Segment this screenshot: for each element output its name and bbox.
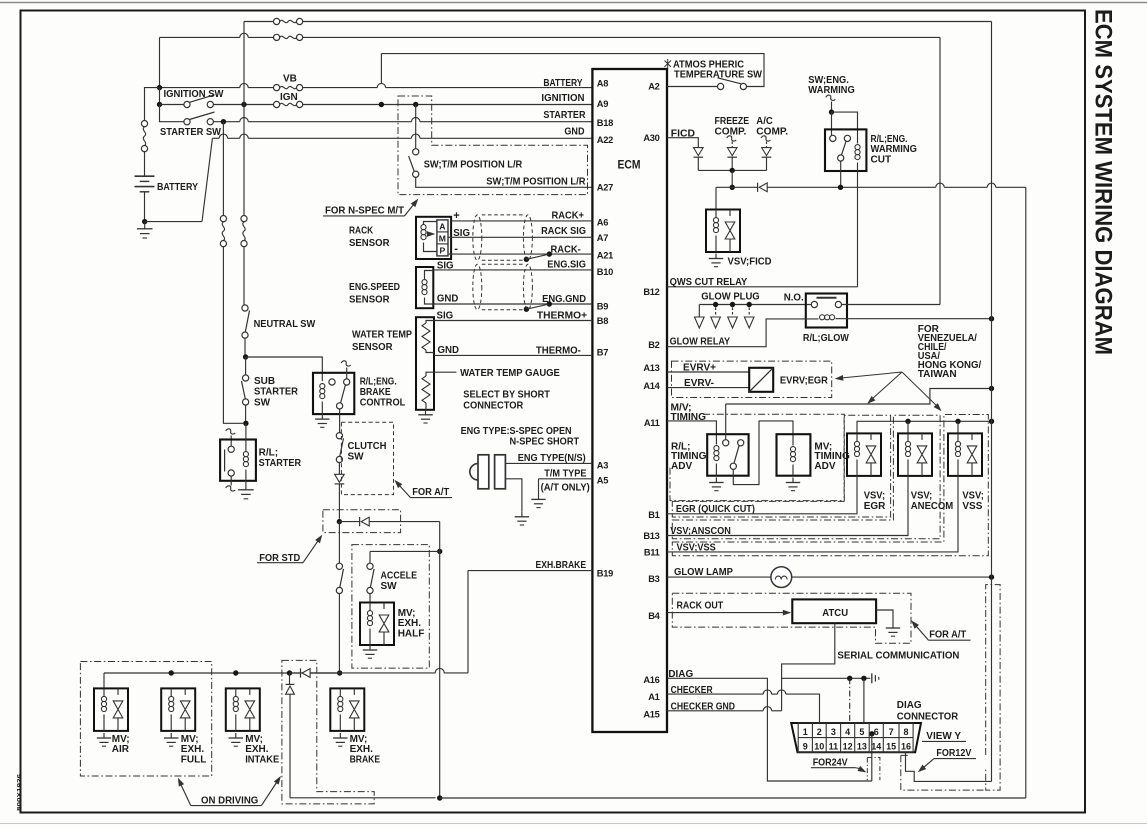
wire RACK+ to A6 bbox=[451, 220, 592, 222]
node starter x223 bbox=[221, 119, 226, 124]
svg-text:ATCU: ATCU bbox=[822, 607, 848, 619]
fuse F1 bbox=[274, 18, 280, 24]
svg-text:GND: GND bbox=[437, 294, 459, 305]
wire diag pin5 feed bbox=[863, 678, 865, 723]
wire ENG.GND to B9 bbox=[433, 303, 592, 305]
svg-text:B11: B11 bbox=[644, 547, 660, 557]
wire glow relay coil to battery column bbox=[836, 318, 992, 320]
solenoid valve VSV;FICD bbox=[706, 210, 740, 253]
ground (T/M type) bbox=[538, 494, 540, 499]
node VB-left bbox=[157, 85, 162, 90]
fusible link FL2 bbox=[220, 216, 226, 222]
wire std column down to bottom rail bbox=[439, 551, 441, 798]
dash-dot box FOR STD bbox=[323, 510, 401, 533]
svg-text:A7: A7 bbox=[597, 233, 608, 243]
svg-text:A16: A16 bbox=[643, 675, 659, 685]
svg-text:ENG.SPEED: ENG.SPEED bbox=[349, 282, 400, 293]
svg-text:A9: A9 bbox=[597, 99, 608, 109]
node glow coil battery bbox=[989, 316, 994, 321]
svg-text:A22: A22 bbox=[597, 135, 613, 145]
svg-text:SW;T/M POSITION L/R: SW;T/M POSITION L/R bbox=[424, 160, 523, 171]
diode D2 (std) bbox=[339, 521, 359, 523]
valve EVRV;EGR bbox=[749, 368, 773, 392]
node eng gnd shield tie bbox=[547, 301, 552, 306]
svg-text:B13: B13 bbox=[643, 531, 659, 541]
svg-text:(A/T ONLY): (A/T ONLY) bbox=[541, 483, 590, 494]
svg-text:A14: A14 bbox=[643, 381, 660, 391]
wire EXH.BRAKE B19 bbox=[468, 570, 592, 572]
asterisk mark bbox=[665, 59, 671, 68]
svg-text:14: 14 bbox=[871, 742, 881, 752]
svg-text:BRAKE: BRAKE bbox=[350, 755, 381, 766]
svg-text:P: P bbox=[440, 245, 446, 255]
dash-dot box ON DRIVING left group bbox=[80, 662, 211, 777]
dash-dot box EVRV group bbox=[672, 361, 832, 397]
ground (short connector) bbox=[521, 512, 523, 517]
wire VB row (ECM A8 BATTERY) bbox=[160, 87, 240, 89]
relay R/L;ENG.WARMING CUT bbox=[825, 129, 866, 171]
svg-text:RACK+: RACK+ bbox=[552, 210, 585, 221]
svg-text:SUB: SUB bbox=[254, 376, 275, 387]
svg-text:B19: B19 bbox=[597, 569, 613, 579]
svg-text:RACK SIG: RACK SIG bbox=[541, 226, 586, 237]
node IGN x381 bbox=[379, 102, 384, 107]
svg-text:EXH.: EXH. bbox=[245, 744, 269, 755]
svg-text:A1: A1 bbox=[648, 692, 659, 702]
svg-text:VIEW Y: VIEW Y bbox=[926, 731, 961, 742]
node IGN x415 (T/M pos feed) bbox=[413, 102, 418, 107]
solenoid valve VSV;ANECOM bbox=[898, 433, 932, 476]
solenoid MV;AIR bbox=[94, 688, 128, 731]
svg-text:RACK OUT: RACK OUT bbox=[677, 601, 724, 612]
wire RACK- to A21 bbox=[448, 253, 592, 255]
dash-dot box SW;T/M POSITION group bbox=[398, 96, 588, 195]
solenoid valve VSV;VSS bbox=[948, 433, 982, 476]
svg-text:A30: A30 bbox=[643, 133, 659, 143]
dash-dot box FOR12V bbox=[986, 585, 1000, 791]
svg-text:16: 16 bbox=[901, 742, 911, 752]
starter switch STARTER SW bbox=[184, 119, 190, 125]
svg-text:10: 10 bbox=[814, 742, 824, 752]
svg-text:BRAKE: BRAKE bbox=[360, 387, 391, 398]
wire battery to chassis run bbox=[145, 221, 202, 223]
dash-dot box FOR24V bbox=[867, 758, 880, 781]
node rail diode bbox=[287, 670, 292, 675]
control unit ATCU bbox=[792, 599, 876, 623]
node IGN-left bbox=[157, 102, 162, 107]
svg-text:BATTERY: BATTERY bbox=[157, 182, 198, 193]
svg-text:FREEZE: FREEZE bbox=[715, 116, 750, 127]
solenoid MV;TIMING ADV bbox=[777, 434, 811, 476]
node diag connector pin6 bbox=[869, 731, 874, 736]
dashed box FOR A/T (clutch) bbox=[341, 422, 393, 494]
svg-text:FOR A/T: FOR A/T bbox=[929, 630, 966, 641]
fuse IGN bbox=[274, 101, 280, 107]
svg-text:6: 6 bbox=[874, 727, 879, 737]
node starter relay feed bbox=[243, 421, 248, 426]
ground (starter relay) bbox=[245, 481, 247, 490]
svg-text:A27: A27 bbox=[597, 182, 613, 192]
sub starter switch SUB STARTER SW bbox=[245, 357, 247, 375]
svg-text:A/C: A/C bbox=[756, 116, 773, 127]
wire connector to ground bbox=[505, 479, 522, 512]
wire fuse1 row (battery feed top) bbox=[244, 21, 273, 23]
wire battery column right bbox=[991, 22, 993, 782]
svg-text:TEMPERATURE SW: TEMPERATURE SW bbox=[674, 70, 763, 81]
node serial-diag 1 bbox=[847, 676, 852, 681]
wire bottom feed rail bbox=[290, 797, 436, 799]
svg-text:R/L;ENG.: R/L;ENG. bbox=[360, 376, 397, 387]
svg-text:B1: B1 bbox=[648, 510, 659, 520]
ground (diag, sideways) bbox=[871, 673, 873, 683]
svg-text:ON DRIVING: ON DRIVING bbox=[201, 795, 259, 806]
diagnosis connector DIAG CONNECTOR bbox=[791, 723, 921, 752]
resistor R2 (gauge sender) bbox=[426, 372, 434, 376]
engine speed sensor ENG.SPEED SENSOR bbox=[416, 267, 433, 308]
ground (water temp) bbox=[425, 410, 427, 415]
svg-text:EVRV;EGR: EVRV;EGR bbox=[780, 376, 829, 387]
svg-text:B7: B7 bbox=[597, 348, 608, 358]
svg-text:A2: A2 bbox=[648, 82, 659, 92]
svg-text:GLOW RELAY: GLOW RELAY bbox=[670, 336, 731, 347]
wire starter column down bbox=[222, 122, 224, 216]
svg-text:BATTERY: BATTERY bbox=[543, 78, 582, 89]
svg-text:MV;: MV; bbox=[112, 734, 130, 745]
svg-text:B10: B10 bbox=[597, 267, 613, 277]
diode D8 (ficd line) bbox=[757, 183, 759, 192]
svg-text:VB: VB bbox=[283, 74, 297, 85]
solenoid MV;EXH.BRAKE bbox=[330, 688, 364, 731]
svg-text:COMP.: COMP. bbox=[756, 127, 788, 138]
svg-text:EGR (QUICK CUT): EGR (QUICK CUT) bbox=[676, 504, 755, 515]
svg-text:ECM: ECM bbox=[618, 160, 641, 172]
wire STARTER row (ECM B18) bbox=[213, 121, 239, 123]
dash-dot box vsv anecom group bbox=[672, 415, 940, 539]
wire solenoid rail bbox=[444, 672, 468, 674]
svg-text:FOR N-SPEC M/T: FOR N-SPEC M/T bbox=[325, 206, 404, 217]
svg-text:ACCELE: ACCELE bbox=[381, 570, 418, 581]
fuse VB bbox=[274, 85, 280, 91]
svg-text:13: 13 bbox=[857, 742, 867, 752]
wire ficd feed right drop bbox=[1025, 187, 1027, 798]
svg-text:B8: B8 bbox=[597, 316, 608, 326]
diode D3 (rail) bbox=[290, 672, 301, 674]
node glow lamp battery bbox=[989, 574, 994, 579]
diode D4 (on driving column) bbox=[286, 683, 295, 685]
shield oval (eng wires) bbox=[473, 264, 482, 309]
wire ficd feed line bbox=[716, 186, 757, 188]
svg-text:SW: SW bbox=[254, 397, 271, 408]
svg-text:FOR A/T: FOR A/T bbox=[412, 487, 449, 498]
T/M position switch SW;T/M POSITION L/R bbox=[415, 105, 417, 149]
svg-text:SW: SW bbox=[381, 581, 398, 592]
svg-text:SENSOR: SENSOR bbox=[349, 294, 390, 305]
svg-text:CONNECTOR: CONNECTOR bbox=[463, 401, 524, 412]
svg-text:IGNITION: IGNITION bbox=[541, 93, 584, 104]
dash-dot box ON DRIVING right group bbox=[282, 660, 374, 804]
ground (timing relay) bbox=[715, 478, 717, 483]
svg-text:5: 5 bbox=[859, 727, 864, 737]
relay R/L;TIMING ADV bbox=[707, 434, 748, 476]
svg-text:R/L;: R/L; bbox=[259, 448, 278, 459]
wire diode bus bbox=[698, 169, 766, 171]
wire THERMO- to B7 bbox=[434, 354, 592, 356]
svg-text:SENSOR: SENSOR bbox=[349, 238, 390, 249]
fusible link FL1 (battery) bbox=[141, 121, 147, 127]
svg-text:SW: SW bbox=[348, 452, 365, 463]
resistor R1 (thermistor) bbox=[426, 321, 434, 324]
svg-text:VSV;: VSV; bbox=[962, 490, 984, 501]
svg-text:FOR12V: FOR12V bbox=[936, 748, 971, 759]
dash-dot box vsv vss group bbox=[672, 415, 988, 556]
svg-text:12: 12 bbox=[843, 742, 853, 752]
svg-text:B2: B2 bbox=[648, 340, 659, 350]
ground (mv timing) bbox=[792, 478, 794, 483]
svg-text:GLOW PLUG: GLOW PLUG bbox=[701, 292, 760, 303]
svg-text:THERMO+: THERMO+ bbox=[537, 310, 587, 321]
svg-text:CUT: CUT bbox=[871, 155, 892, 166]
svg-text:AIR: AIR bbox=[112, 744, 130, 755]
node battery-timing bbox=[989, 386, 994, 391]
rack sensor RACK SENSOR bbox=[416, 217, 451, 259]
node ficd bus bbox=[730, 168, 735, 173]
svg-text:STARTER: STARTER bbox=[259, 458, 302, 469]
svg-text:IGN: IGN bbox=[280, 92, 298, 103]
wire fuse2 row bbox=[160, 36, 240, 38]
svg-text:FULL: FULL bbox=[181, 755, 207, 766]
dash-dot box rack out group (FOR A/T) bbox=[672, 593, 911, 643]
svg-text:B18: B18 bbox=[597, 118, 613, 128]
wire RACK SIG to A7 bbox=[448, 236, 592, 238]
svg-text:EXH.BRAKE: EXH.BRAKE bbox=[536, 560, 587, 571]
svg-text:B12: B12 bbox=[643, 287, 659, 297]
svg-text:N-SPEC SHORT: N-SPEC SHORT bbox=[510, 437, 580, 448]
svg-text:R/L;GLOW: R/L;GLOW bbox=[803, 333, 850, 344]
ground (vsv ficd) bbox=[715, 254, 717, 259]
ground (brake control) bbox=[321, 414, 323, 419]
svg-text:STARTER: STARTER bbox=[543, 110, 586, 121]
node vsv rail vss bbox=[955, 419, 960, 424]
svg-text:ENG TYPE:S-SPEC OPEN: ENG TYPE:S-SPEC OPEN bbox=[461, 426, 572, 437]
wire T/M TYPE to A5 bbox=[539, 478, 593, 480]
accelerator switch ACCELE SW bbox=[370, 550, 440, 552]
svg-text:A11: A11 bbox=[644, 418, 660, 428]
svg-text:SENSOR: SENSOR bbox=[352, 342, 393, 353]
svg-text:HALF: HALF bbox=[398, 629, 425, 640]
svg-text:7: 7 bbox=[889, 727, 894, 737]
short connector (eng type select) bbox=[470, 464, 478, 480]
svg-text:MV;: MV; bbox=[181, 734, 199, 745]
solenoid MV;EXH.HALF bbox=[360, 603, 394, 646]
svg-text:ENG.SIG: ENG.SIG bbox=[547, 259, 586, 270]
wire neutral column down bbox=[243, 22, 245, 105]
svg-text:GND: GND bbox=[438, 345, 460, 356]
svg-text:A6: A6 bbox=[597, 218, 608, 228]
solenoid valve VSV;EGR bbox=[847, 433, 881, 476]
svg-text:VSV;: VSV; bbox=[864, 490, 886, 501]
svg-text:TAIWAN: TAIWAN bbox=[918, 369, 957, 380]
node bottom rail bbox=[437, 795, 442, 800]
svg-text:A5: A5 bbox=[597, 476, 608, 486]
relay R/L;STARTER bbox=[226, 429, 236, 434]
clutch switch CLUTCH SW bbox=[336, 433, 342, 439]
wire FOR12V feed (pin16 to battery column) bbox=[906, 752, 992, 781]
svg-text:EXH.: EXH. bbox=[181, 744, 205, 755]
node serial-diag 2 bbox=[861, 676, 866, 681]
svg-text:8: 8 bbox=[903, 727, 908, 737]
wire to battery via fusible link bbox=[145, 88, 160, 121]
svg-text:THERMO-: THERMO- bbox=[536, 345, 581, 356]
svg-text:A8: A8 bbox=[597, 78, 608, 88]
svg-text:MV;: MV; bbox=[398, 608, 416, 619]
svg-text:EXH.: EXH. bbox=[398, 618, 422, 629]
svg-text:WATER TEMP: WATER TEMP bbox=[352, 330, 412, 341]
svg-text:11: 11 bbox=[829, 742, 839, 752]
wire starter switch feed bbox=[160, 105, 184, 122]
svg-text:FOR24V: FOR24V bbox=[813, 757, 848, 768]
dash-dot box timing group bbox=[670, 414, 844, 500]
diode D5 (FICD) bbox=[694, 148, 704, 156]
wire THERMO+ to B8 bbox=[434, 320, 592, 322]
svg-text:RACK: RACK bbox=[349, 226, 374, 237]
svg-text:A3: A3 bbox=[597, 460, 608, 470]
svg-text:B3: B3 bbox=[648, 574, 659, 584]
wire glow plug bus bbox=[699, 304, 811, 306]
fuse F2 bbox=[274, 34, 280, 40]
ground (battery) bbox=[144, 222, 146, 229]
atmospheric switch ATMOS PHERIC TEMPERATURE SW bbox=[718, 83, 724, 89]
svg-text:NEUTRAL SW: NEUTRAL SW bbox=[254, 319, 316, 330]
svg-text:2: 2 bbox=[817, 727, 822, 737]
svg-text:800X1926: 800X1926 bbox=[17, 774, 23, 811]
dash-dot box accele group bbox=[352, 545, 429, 669]
wire ATCU to ground bbox=[876, 610, 893, 623]
svg-text:WARMING: WARMING bbox=[808, 85, 855, 96]
wire timing contact feed from battery line bbox=[726, 389, 992, 405]
ground (ATCU) bbox=[892, 623, 894, 628]
svg-text:ENG TYPE(N/S): ENG TYPE(N/S) bbox=[518, 453, 586, 464]
svg-text:SELECT BY SHORT: SELECT BY SHORT bbox=[463, 389, 550, 400]
node battery minus bbox=[142, 219, 147, 224]
svg-text:SW;T/M POSITION L/R: SW;T/M POSITION L/R bbox=[486, 176, 586, 187]
svg-text:DIAG: DIAG bbox=[897, 700, 922, 711]
svg-text:15: 15 bbox=[886, 742, 896, 752]
svg-text:M: M bbox=[439, 233, 446, 243]
svg-text:EGR: EGR bbox=[864, 501, 886, 512]
svg-text:R/L;ENG.: R/L;ENG. bbox=[871, 134, 908, 145]
svg-text:3: 3 bbox=[831, 727, 836, 737]
solenoid MV;EXH.FULL bbox=[161, 688, 195, 731]
pointer arrows from venezuela label bbox=[839, 372, 903, 378]
lamp GLOW LAMP bbox=[771, 567, 792, 588]
svg-text:-: - bbox=[454, 243, 458, 255]
svg-text:QWS CUT RELAY: QWS CUT RELAY bbox=[670, 277, 748, 288]
svg-text:T/M TYPE: T/M TYPE bbox=[544, 468, 586, 479]
wire fuse2 left drop to VB node bbox=[159, 37, 161, 87]
svg-text:VSS: VSS bbox=[962, 501, 982, 512]
wire diag pin4 feed (dash-dot) bbox=[849, 678, 851, 723]
wire GND row (ECM A22) bbox=[212, 137, 219, 139]
dash-dot box vsv egr group bbox=[672, 415, 890, 517]
svg-text:MV;: MV; bbox=[245, 734, 263, 745]
svg-text:CLUTCH: CLUTCH bbox=[348, 441, 387, 452]
svg-text:9: 9 bbox=[803, 742, 808, 752]
wire serial communication bbox=[782, 623, 835, 711]
wire neutral-out to brake control relay bbox=[246, 357, 323, 381]
diode D6 (freeze comp) bbox=[731, 142, 733, 148]
svg-text:EXH.: EXH. bbox=[350, 744, 374, 755]
node std feed bbox=[337, 519, 342, 524]
svg-text:CONTROL: CONTROL bbox=[360, 397, 406, 408]
svg-text:VSV;FICD: VSV;FICD bbox=[728, 257, 772, 268]
switch (std, unlabeled) bbox=[338, 522, 340, 564]
svg-text:MV;: MV; bbox=[350, 734, 368, 745]
svg-text:IGNITION SW: IGNITION SW bbox=[164, 89, 225, 100]
shield oval (rack wires) bbox=[473, 215, 482, 260]
scan artifact line top bbox=[0, 2, 1147, 4]
ground (exh half) bbox=[369, 645, 371, 650]
svg-text:4: 4 bbox=[845, 727, 850, 737]
svg-text:+: + bbox=[453, 210, 459, 222]
svg-text:ANECOM: ANECOM bbox=[911, 501, 953, 512]
node accele feed bbox=[437, 549, 442, 554]
relay R/L;ENG.BRAKE CONTROL bbox=[313, 373, 354, 414]
diode D1 (clutch) bbox=[335, 474, 345, 482]
svg-text:ADV: ADV bbox=[814, 461, 835, 472]
node warming switch bbox=[829, 109, 834, 114]
node neutral-out bbox=[243, 354, 248, 359]
svg-text:A: A bbox=[439, 221, 445, 231]
node IGN x244 bbox=[241, 102, 246, 107]
wire A11 to timing relay coil bbox=[667, 421, 716, 445]
ignition switch IGNITION SW bbox=[184, 101, 190, 107]
svg-text:WARMING: WARMING bbox=[871, 144, 918, 155]
node vsv rail battery bbox=[989, 419, 994, 424]
svg-text:STARTER SW: STARTER SW bbox=[160, 127, 222, 138]
wire ENG.SIG to B10 bbox=[433, 269, 592, 271]
svg-text:B9: B9 bbox=[597, 301, 608, 311]
water temp sensor WATER TEMP SENSOR bbox=[416, 317, 434, 410]
wire A2 to atmospheric temperature switch bbox=[667, 86, 718, 88]
node rail exh.full bbox=[169, 670, 174, 675]
wire VSV supply rail bbox=[857, 421, 992, 433]
svg-text:A15: A15 bbox=[643, 710, 659, 720]
node vsv rail anecom bbox=[905, 419, 910, 424]
svg-text:INTAKE: INTAKE bbox=[245, 755, 279, 766]
node exh brake rail left bbox=[337, 670, 342, 675]
node ficd out bbox=[730, 185, 735, 190]
svg-text:B4: B4 bbox=[648, 611, 660, 621]
svg-text:ADV: ADV bbox=[671, 461, 692, 472]
svg-text:GND: GND bbox=[564, 127, 584, 138]
node warming out bbox=[838, 185, 843, 190]
fusible link FL3 bbox=[241, 216, 247, 222]
neutral switch NEUTRAL SW bbox=[242, 305, 248, 311]
wire ENG TYPE(N/S) to A3 bbox=[505, 462, 592, 464]
solenoid MV;EXH.INTAKE bbox=[226, 688, 260, 731]
wire to water temp gauge bbox=[434, 371, 456, 373]
svg-text:A21: A21 bbox=[597, 251, 613, 261]
wire battery diagonal up to GND line bbox=[202, 138, 212, 221]
svg-text:SERIAL COMMUNICATION: SERIAL COMMUNICATION bbox=[837, 650, 959, 661]
svg-text:WATER TEMP GAUGE: WATER TEMP GAUGE bbox=[460, 368, 560, 379]
svg-text:A13: A13 bbox=[643, 363, 659, 373]
wire timing contact out to MV;TIMING bbox=[733, 421, 793, 485]
svg-text:STARTER: STARTER bbox=[254, 387, 299, 398]
svg-text:CONNECTOR: CONNECTOR bbox=[897, 711, 959, 722]
node rail exh.intake bbox=[233, 670, 238, 675]
wire IGN row left segment bbox=[159, 88, 161, 105]
